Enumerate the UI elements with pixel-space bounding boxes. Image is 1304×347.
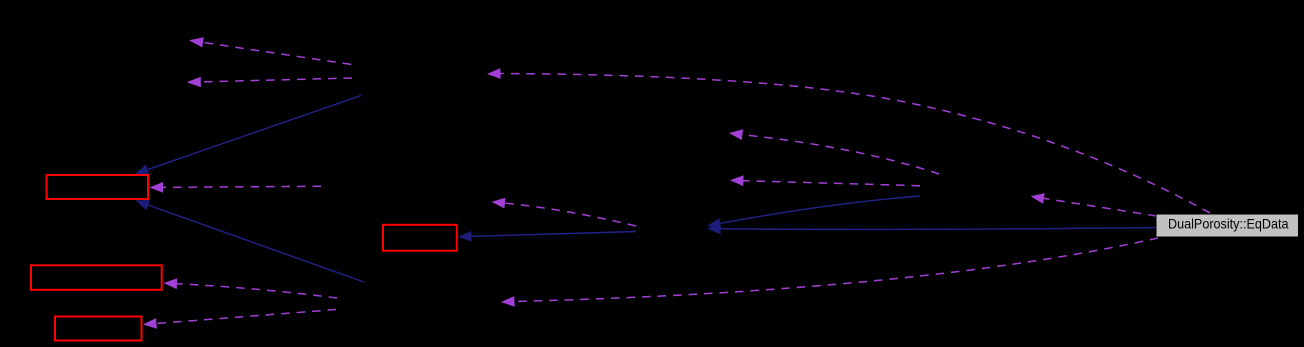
wire: solid inheritance edge B2 from bottom node B to red class box 1 (bottom) bbox=[136, 200, 365, 282]
node: red class box 1 (top-left) bbox=[47, 175, 149, 199]
wire: dashed usage edge P10 from bottom node B to red class box 3 bbox=[143, 310, 336, 329]
wire: dashed usage edge P5 from right node D to hidden node F bbox=[729, 129, 939, 174]
node: red class box 2 (middle-left) bbox=[31, 265, 162, 290]
wire: dashed usage edge P8 from DualPorosity::EqData to top node A (long top arc) bbox=[487, 68, 1210, 213]
node: red class box 3 (bottom-left) bbox=[55, 317, 142, 341]
wire: solid inheritance edge B5 from center node C to red class box 4 bbox=[458, 231, 636, 242]
wire: solid inheritance edge B4 from DualPorosity::EqData to center node C bbox=[707, 223, 1156, 234]
wire: dashed usage edge P2 from node A to lower hidden node bbox=[187, 77, 352, 87]
node: red class box 4 (center) bbox=[383, 225, 457, 251]
wire: dashed usage edge P1 from node A to upper-left hidden node bbox=[189, 37, 351, 64]
wire: dashed usage edge P11 from DualPorosity::EqData to bottom node B (long bottom arc) bbox=[501, 238, 1158, 307]
wire: dashed usage edge P6 from right node D to hidden node G bbox=[730, 175, 920, 186]
wire: dashed usage edge P7 from DualPorosity::EqData to right node D bbox=[1031, 193, 1157, 216]
wire: dashed usage edge P3 from hidden node E to red class box 1 bbox=[150, 182, 322, 193]
wire: solid inheritance edge B1 from node A to red class box 1 (top) bbox=[135, 96, 361, 175]
wire: solid inheritance edge B3 from right node D to center node C bbox=[707, 196, 920, 229]
node: DualPorosity::EqData (current class, grey) bbox=[1156, 214, 1299, 237]
svg-text:DualPorosity::EqData: DualPorosity::EqData bbox=[1168, 216, 1289, 232]
wire: dashed usage edge P9 from bottom node B to red class box 2 bbox=[164, 278, 338, 298]
wire: dashed usage edge P4 from center node C to hidden node E bbox=[492, 198, 637, 226]
